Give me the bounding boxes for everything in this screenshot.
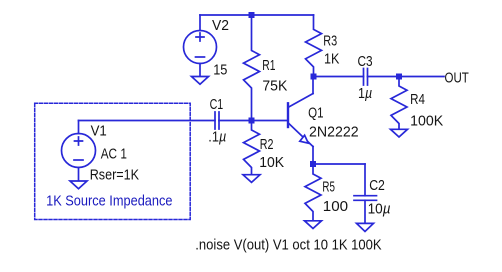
ground below R4 bbox=[391, 129, 408, 137]
svg-text:Rser=1K: Rser=1K bbox=[90, 168, 140, 184]
svg-text:R4: R4 bbox=[410, 92, 425, 108]
resistor R2 body bbox=[244, 121, 260, 175]
resistor R5 body bbox=[305, 164, 321, 221]
transistor Q1 collector diagonal bbox=[289, 94, 313, 108]
svg-text:2N2222: 2N2222 bbox=[309, 125, 359, 141]
ground below C2 bbox=[357, 223, 374, 231]
node collector junction R3 C3 bbox=[311, 74, 317, 80]
svg-text:.noise V(out) V1 oct 10 1K 100: .noise V(out) V1 oct 10 1K 100K bbox=[195, 237, 382, 253]
wire C2 top lead bbox=[364, 164, 366, 196]
svg-text:.1µ: .1µ bbox=[208, 130, 226, 146]
wire emitter to R5 junction bbox=[312, 147, 314, 165]
svg-text:C2: C2 bbox=[369, 178, 385, 194]
svg-text:1K Source Impedance: 1K Source Impedance bbox=[46, 194, 172, 210]
svg-text:1K: 1K bbox=[324, 51, 340, 67]
V1 plus sign bbox=[75, 137, 83, 145]
capacitor C2 plates bbox=[354, 196, 377, 201]
node OUT junction C3 R4 bbox=[396, 74, 402, 80]
wire V1 bottom lead bbox=[78, 168, 80, 182]
svg-text:C1: C1 bbox=[210, 97, 224, 113]
svg-text:100: 100 bbox=[323, 199, 348, 215]
V2 plus sign bbox=[196, 33, 204, 41]
V2 minus sign bbox=[196, 56, 205, 58]
ground below V1 bbox=[70, 181, 87, 189]
svg-text:OUT: OUT bbox=[445, 70, 469, 86]
transistor Q1 emitter arrow bbox=[300, 135, 309, 143]
node emitter junction R5 C2 bbox=[310, 161, 316, 167]
voltage source V2 circle bbox=[184, 31, 217, 64]
capacitor C1 plates bbox=[215, 112, 219, 129]
svg-text:R2: R2 bbox=[260, 137, 274, 153]
ground below R2 bbox=[243, 175, 260, 183]
svg-text:R3: R3 bbox=[323, 34, 337, 50]
wire V1 to C1 left plate bbox=[79, 120, 216, 122]
svg-text:15: 15 bbox=[213, 62, 227, 78]
voltage source V1 circle bbox=[62, 134, 96, 168]
node N001 junction top of R1 bbox=[249, 12, 255, 18]
svg-text:V2: V2 bbox=[212, 18, 229, 34]
wire V2 bottom lead bbox=[199, 64, 201, 77]
svg-text:AC 1: AC 1 bbox=[101, 147, 127, 163]
wire OUT junction to OUT label bbox=[399, 76, 444, 78]
svg-text:10K: 10K bbox=[259, 155, 284, 171]
wire V2 top lead bbox=[199, 15, 201, 31]
wire top rail V2 to R3 bbox=[200, 14, 314, 16]
dashed annotation box 1K source impedance bbox=[35, 103, 191, 219]
wire C2 bottom lead bbox=[364, 200, 366, 223]
transistor Q1 base bar bbox=[287, 103, 289, 127]
resistor R1 body bbox=[244, 15, 260, 121]
svg-text:75K: 75K bbox=[262, 78, 287, 94]
svg-text:R1: R1 bbox=[262, 58, 275, 74]
svg-text:C3: C3 bbox=[358, 54, 373, 70]
node base junction of R1 R2 C1 Q1 bbox=[249, 118, 255, 124]
ground below R5 bbox=[305, 221, 322, 229]
wire R3 junction to C3 left plate bbox=[314, 76, 364, 78]
svg-text:1µ: 1µ bbox=[358, 86, 372, 102]
wire emitter junction to C2 bbox=[313, 163, 365, 165]
svg-text:R5: R5 bbox=[322, 179, 335, 195]
svg-text:Q1: Q1 bbox=[308, 106, 323, 122]
svg-text:100K: 100K bbox=[410, 114, 443, 130]
transistor Q1 emitter diagonal bbox=[289, 124, 313, 147]
svg-text:V1: V1 bbox=[91, 123, 107, 139]
resistor R4 body bbox=[391, 77, 407, 130]
V1 minus sign bbox=[74, 159, 83, 161]
svg-text:10µ: 10µ bbox=[368, 202, 391, 218]
ground below V2 bbox=[192, 77, 209, 85]
capacitor C3 plates bbox=[364, 69, 368, 86]
wire C3 right plate to OUT junction bbox=[368, 76, 400, 78]
wire collector to OUT-node junction bbox=[312, 77, 314, 94]
wire C1 to base junction to Q1 base bbox=[219, 120, 288, 122]
resistor R3 body bbox=[306, 15, 322, 77]
wire V1 top lead bbox=[78, 121, 80, 134]
